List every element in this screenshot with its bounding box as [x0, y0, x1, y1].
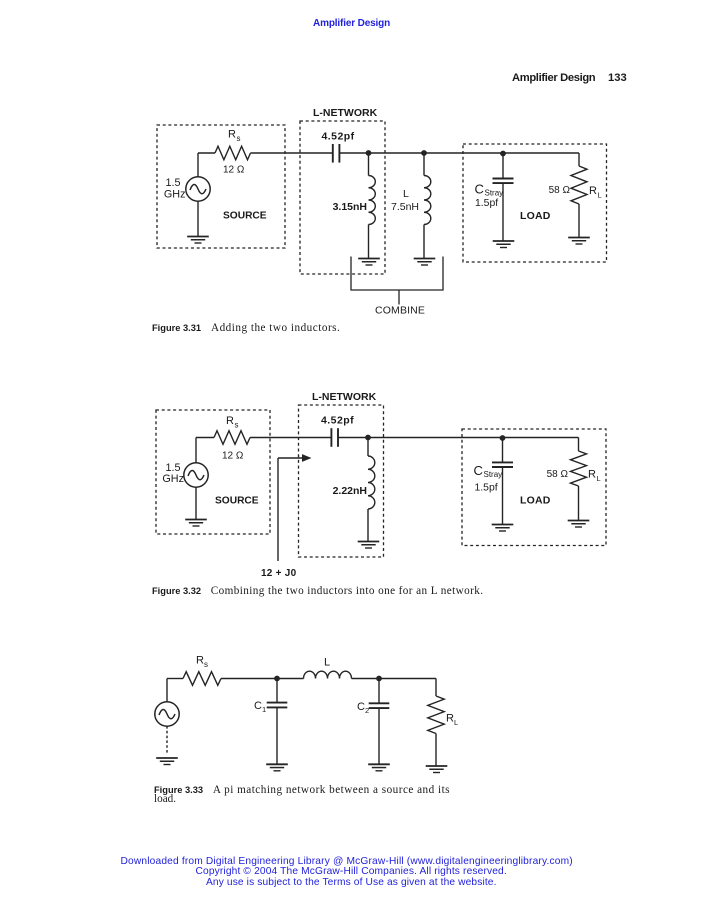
svg-text:R: R	[196, 655, 204, 667]
svg-text:L: L	[324, 657, 330, 669]
svg-text:12 + J0: 12 + J0	[261, 568, 297, 579]
svg-text:L: L	[403, 188, 409, 200]
svg-text:2: 2	[365, 706, 369, 715]
svg-text:L-NETWORK: L-NETWORK	[313, 107, 378, 119]
svg-text:58 Ω: 58 Ω	[549, 185, 571, 196]
svg-text:R: R	[226, 415, 234, 427]
svg-text:4.52pf: 4.52pf	[321, 415, 354, 427]
svg-text:GHz: GHz	[162, 473, 184, 485]
svg-text:LOAD: LOAD	[520, 495, 551, 507]
svg-text:SOURCE: SOURCE	[223, 211, 267, 222]
svg-text:58 Ω: 58 Ω	[547, 469, 569, 480]
svg-text:4.52pf: 4.52pf	[322, 131, 355, 143]
svg-text:1.5pf: 1.5pf	[475, 198, 498, 209]
svg-text:C: C	[474, 463, 483, 478]
svg-text:3.15nH: 3.15nH	[333, 201, 367, 213]
svg-text:Stray: Stray	[484, 470, 503, 479]
svg-text:COMBINE: COMBINE	[375, 305, 425, 317]
svg-text:SOURCE: SOURCE	[215, 496, 259, 507]
svg-text:1: 1	[262, 705, 266, 714]
svg-text:C: C	[357, 701, 365, 713]
svg-text:s: s	[237, 134, 241, 143]
svg-text:C: C	[475, 182, 484, 197]
svg-text:s: s	[235, 421, 239, 430]
svg-text:R: R	[446, 713, 454, 725]
svg-text:1.5pf: 1.5pf	[475, 483, 498, 494]
svg-text:C: C	[254, 700, 262, 712]
svg-text:GHz: GHz	[164, 189, 186, 201]
svg-text:R: R	[589, 185, 597, 197]
svg-text:7.5nH: 7.5nH	[391, 201, 419, 213]
svg-text:L: L	[454, 718, 458, 727]
svg-text:L: L	[597, 474, 601, 483]
svg-text:2.22nH: 2.22nH	[333, 485, 367, 497]
svg-text:L-NETWORK: L-NETWORK	[312, 391, 377, 403]
svg-text:1.5: 1.5	[165, 177, 180, 189]
svg-text:LOAD: LOAD	[520, 210, 551, 222]
svg-text:12 Ω: 12 Ω	[223, 165, 245, 176]
svg-text:12 Ω: 12 Ω	[222, 451, 244, 462]
svg-text:s: s	[204, 660, 208, 669]
svg-text:Stray: Stray	[485, 189, 504, 198]
svg-text:R: R	[588, 469, 596, 481]
svg-text:L: L	[598, 191, 602, 200]
svg-text:R: R	[228, 129, 236, 141]
